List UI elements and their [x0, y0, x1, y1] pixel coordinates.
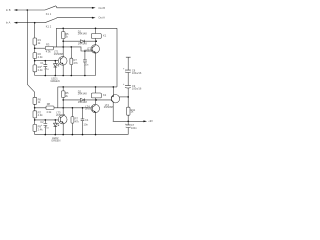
- junction dot C3 bus: [84, 75, 86, 77]
- junction dot C3 top: [84, 50, 86, 52]
- svg-text:K1 1: K1 1: [46, 12, 52, 16]
- resistor R5b: [61, 91, 65, 98]
- junction dot R1/R2 node: [34, 47, 36, 49]
- svg-text:In A: In A: [6, 21, 11, 25]
- node In A arrow: [14, 22, 18, 24]
- node +9V arrow: [143, 120, 147, 122]
- junction dot C6 top: [82, 107, 84, 109]
- junction dot C1 top: [45, 60, 47, 62]
- svg-text:47k: 47k: [74, 61, 79, 65]
- wire In B horizontal: [17, 9, 45, 11]
- wire ground bus top half: [35, 75, 96, 77]
- resistor R9: [33, 124, 37, 131]
- wire R11 to 9V line: [127, 115, 129, 121]
- wire R5 leads: [62, 28, 64, 47]
- svg-text:47k: 47k: [75, 119, 80, 123]
- junction dot LED2 top: [55, 119, 57, 121]
- junction dot C2 bottom: [45, 134, 47, 136]
- node In B arrow: [14, 9, 18, 11]
- junction dot R2/R4 node: [34, 60, 36, 62]
- capacitor C3: [83, 51, 87, 76]
- junction dot rail K1: [95, 28, 97, 30]
- svg-text:K1: K1: [103, 33, 107, 37]
- wire +9V line: [113, 120, 145, 122]
- junction dot 9V/C7: [127, 121, 129, 123]
- wire ground bus2: [35, 134, 128, 136]
- resistor R11: [127, 107, 131, 115]
- wire Q3 emitter: [62, 123, 64, 134]
- resistor R10: [70, 58, 73, 64]
- wire Q5 right lead: [120, 96, 129, 98]
- svg-text:4.3k: 4.3k: [38, 113, 44, 117]
- relay coil K1: [91, 34, 101, 39]
- junction dot R6/R7 node: [34, 107, 36, 109]
- wire R9 to bus2: [34, 131, 36, 134]
- wire rail2 stub down: [57, 87, 59, 108]
- svg-text:+9V: +9V: [148, 119, 153, 123]
- switch K1.2 blade: [45, 18, 57, 23]
- wire rail1: [56, 27, 117, 29]
- junction dot node1 Q1: [62, 46, 64, 48]
- svg-text:R8: R8: [47, 102, 51, 106]
- svg-text:K1 2: K1 2: [46, 24, 52, 28]
- svg-text:47u: 47u: [44, 67, 49, 71]
- wire rail stub down: [55, 28, 57, 47]
- junction dot LED1 bottom: [55, 75, 57, 77]
- transistor Q1: [58, 57, 67, 66]
- relay coil K2: [91, 93, 101, 98]
- junction dot rail R5: [62, 28, 64, 30]
- junction dot Q5 right: [127, 96, 129, 98]
- wire Q4 emitter: [95, 113, 97, 135]
- svg-text:C4: C4: [85, 118, 89, 122]
- capacitor C2: [44, 120, 48, 135]
- wire R10 vertical: [70, 47, 72, 76]
- wire Q5 vertical emitter/collector: [112, 87, 114, 121]
- svg-text:In B: In B: [6, 8, 11, 12]
- svg-text:4.3k: 4.3k: [38, 55, 44, 59]
- svg-text:GREEN: GREEN: [50, 79, 59, 83]
- svg-text:2.4k: 2.4k: [38, 127, 44, 131]
- capacitor C9: [125, 86, 131, 108]
- junction dot Q3 emitter bus2: [62, 134, 64, 136]
- junction dot Q1 emitter bus: [62, 75, 64, 77]
- junction dot Q2 collector: [95, 40, 97, 42]
- capacitor C8: [125, 70, 131, 85]
- transistor Q4: [91, 104, 99, 112]
- junction dot LED2 bottom: [55, 134, 57, 136]
- resistor R7: [33, 111, 37, 118]
- wire node to R3: [35, 47, 46, 49]
- junction dot R10b bus2: [72, 134, 74, 136]
- svg-text:Out B: Out B: [98, 6, 105, 10]
- svg-text:R3: R3: [46, 43, 50, 47]
- wire base node line: [35, 60, 61, 62]
- junction dot Q3 collector node2: [62, 107, 64, 109]
- svg-text:Out A: Out A: [98, 16, 105, 20]
- junction dot LED1 top: [55, 60, 57, 62]
- junction dot R5 bottom: [62, 40, 64, 42]
- LED LED2: [54, 120, 58, 135]
- svg-text:1N4148: 1N4148: [78, 42, 88, 46]
- wire Q2 emitter: [95, 53, 97, 76]
- junction dot R5b bottom: [62, 99, 64, 101]
- transistor Q3: [58, 115, 67, 124]
- wire +9V rail vertical: [116, 28, 118, 87]
- LED LED2 arrows: [58, 123, 60, 126]
- svg-text:100u/16: 100u/16: [132, 71, 142, 75]
- junction dot C6 bus2: [82, 134, 84, 136]
- wire K2 leads: [95, 87, 97, 104]
- wire In A vertical drop: [34, 23, 36, 38]
- resistor R3: [45, 46, 53, 50]
- resistor R5: [61, 32, 65, 39]
- wire diode D1 net: [63, 40, 96, 42]
- capacitor C6: [81, 108, 85, 135]
- wire Out A: [57, 17, 93, 19]
- wire node1 line: [53, 47, 92, 51]
- LED LED1 arrows: [58, 64, 60, 67]
- wire K1 leads: [95, 28, 97, 44]
- wire R7 to R9: [34, 118, 36, 125]
- svg-text:1N4148: 1N4148: [78, 100, 88, 104]
- junction dot R10 bus: [71, 75, 73, 77]
- svg-text:4.3k: 4.3k: [46, 50, 52, 54]
- resistor R6: [33, 97, 37, 104]
- junction dot C1 bottom: [45, 75, 47, 77]
- wire R10b vertical: [71, 108, 73, 135]
- svg-text:10n: 10n: [84, 123, 89, 127]
- supply T-bar: [126, 57, 131, 70]
- capacitor C7: [126, 121, 131, 134]
- diode D1: [80, 40, 84, 43]
- wire R4 to bus: [34, 72, 36, 76]
- wire R1 to R2: [34, 45, 36, 53]
- wire In A horizontal: [17, 22, 45, 24]
- junction dot In A: [34, 22, 36, 24]
- junction dot In B: [27, 9, 29, 11]
- junction dot node1 R10: [71, 46, 73, 48]
- svg-text:1N4148: 1N4148: [78, 31, 88, 35]
- junction dot rail2 K2: [95, 86, 97, 88]
- svg-text:4.3k: 4.3k: [46, 110, 52, 114]
- switch K1.1 blade: [45, 6, 57, 10]
- svg-text:47u: 47u: [44, 126, 49, 130]
- wire Q1 collector: [62, 47, 64, 57]
- wire node2 line: [35, 107, 93, 109]
- wire diode D2 net / Q5 base: [63, 99, 111, 101]
- svg-text:K2: K2: [103, 93, 107, 97]
- resistor R2: [33, 53, 37, 59]
- junction dot rail2 R5b: [62, 86, 64, 88]
- wire base node2 line: [35, 119, 61, 121]
- svg-text:GREEN: GREEN: [51, 139, 60, 143]
- wire R6 to R7: [34, 104, 36, 111]
- capacitor C1: [44, 61, 48, 76]
- junction dot C2 top: [45, 119, 47, 121]
- wire rail2: [58, 86, 117, 88]
- wire In B vertical drop: [27, 10, 34, 97]
- junction dot R7/R9 node: [34, 119, 36, 121]
- junction dot rail2 Q5: [113, 86, 115, 88]
- wire Out B: [57, 7, 93, 9]
- wire R2 to R4: [34, 58, 36, 65]
- resistor R4: [33, 65, 37, 72]
- svg-text:10n: 10n: [84, 62, 89, 66]
- node Out A arrow: [92, 17, 96, 19]
- transistor Q2: [91, 45, 99, 53]
- junction dot R10b node2: [72, 107, 74, 109]
- resistor R10b: [71, 117, 74, 124]
- junction dot Q4 collector: [95, 99, 97, 101]
- svg-text:2N5088: 2N5088: [104, 105, 114, 109]
- svg-text:2N5088: 2N5088: [54, 52, 64, 56]
- LED LED1: [54, 61, 58, 76]
- resistor R1: [33, 38, 37, 45]
- resistor R8: [46, 106, 54, 110]
- wire Q3 collector: [62, 108, 64, 116]
- node Out B arrow: [92, 7, 96, 9]
- wire R5b leads: [62, 87, 64, 108]
- wire Q1 emitter: [62, 65, 64, 76]
- svg-text:100u/16: 100u/16: [132, 87, 142, 91]
- junction dot Q4 emitter bus2: [95, 134, 97, 136]
- transistor Q5: [111, 95, 119, 103]
- svg-text:100n: 100n: [131, 126, 137, 130]
- svg-text:2.4k: 2.4k: [38, 68, 44, 72]
- diode D2: [80, 98, 84, 101]
- svg-text:1N4148: 1N4148: [78, 91, 88, 95]
